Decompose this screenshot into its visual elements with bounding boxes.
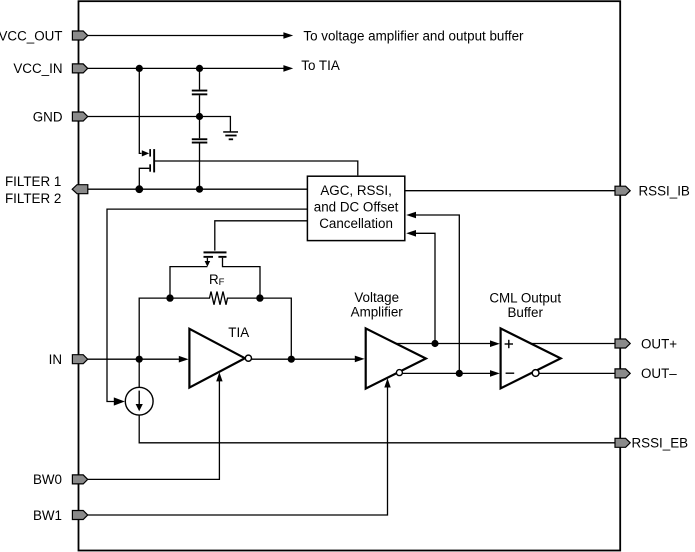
svg-text:To TIA: To TIA: [301, 58, 340, 73]
pin pad OUT+: [615, 339, 630, 348]
svg-text:OUT–: OUT–: [641, 366, 677, 381]
pin pad RSSI_IB: [615, 186, 630, 195]
wire supply decoupling vertical (VCC_IN node down through caps to FILTER): [199, 68, 201, 189]
wire feedback from - line to AGC upper arrow: [406, 212, 459, 374]
svg-text:TIA: TIA: [228, 325, 249, 340]
wire M1 gate feed from VCC_IN node: [139, 68, 149, 156]
svg-text:and DC Offset: and DC Offset: [314, 200, 399, 215]
node FILTER junction at cap chain: [196, 186, 203, 193]
voltage amplifier inverted-output bubble: [396, 370, 402, 376]
wire VA non-inverted output to CML + input: [396, 340, 500, 347]
wire current source to RSSI_EB pin: [139, 415, 615, 443]
pin pad BW1: [72, 511, 87, 520]
wire VCC_OUT to internal supply arrow: [88, 32, 294, 39]
CML inverted-output bubble: [532, 370, 539, 377]
pin pad RSSI_EB: [615, 438, 630, 447]
node feedback tap on + line: [431, 340, 438, 347]
wire M1 drain to AGC block top: [155, 161, 358, 175]
op-amp U3 CML output buffer: [501, 328, 561, 388]
label CML Output Buffer: [489, 290, 561, 320]
ground symbol: [223, 131, 238, 140]
label Voltage Amplifier: [351, 290, 404, 320]
wire FILTER bus to AGC block: [88, 188, 308, 190]
wire M2 right terminal to RF right node: [223, 258, 261, 298]
TIA output inversion bubble: [245, 355, 251, 361]
svg-text:Buffer: Buffer: [507, 305, 543, 320]
svg-text:FILTER 1: FILTER 1: [5, 174, 61, 189]
wire IN to TIA input arrow: [88, 356, 189, 363]
transistor M1 (filter MOSFET): [149, 149, 155, 172]
capacitor C2 (GND to FILTER): [192, 138, 208, 143]
wire RF feedback left leg to TIA input node: [139, 298, 170, 359]
node FILTER junction at M1 source: [135, 185, 143, 193]
svg-text:VCC_IN: VCC_IN: [13, 61, 62, 76]
pin pad OUT-: [615, 369, 630, 378]
svg-text:GND: GND: [33, 109, 63, 124]
wire AGC RSSI output to RSSI_IB pin: [405, 190, 615, 192]
svg-text:OUT+: OUT+: [641, 336, 677, 351]
svg-text:RSSI_EB: RSSI_EB: [632, 436, 689, 451]
node RF right junction: [256, 294, 263, 301]
op-amp U2 voltage amplifier: [366, 328, 426, 388]
AGC block U1: [307, 176, 404, 240]
svg-text:BW0: BW0: [33, 472, 62, 487]
svg-text:CML Output: CML Output: [489, 290, 561, 305]
wire RF feedback right leg to TIA output node: [260, 298, 291, 359]
pin pad VCC_IN: [72, 64, 87, 73]
wire M2 left terminal with arrow to RF left node: [170, 258, 210, 298]
node GND junction: [196, 113, 203, 120]
wire TIA output to voltage amplifier input arrow: [252, 356, 365, 363]
wire feedback from + line to AGC lower arrow: [406, 230, 435, 344]
svg-text:AGC, RSSI,: AGC, RSSI,: [320, 183, 391, 198]
outer chip boundary box: [79, 1, 621, 550]
CML - input marker: [506, 372, 515, 374]
svg-text:RSSI_IB: RSSI_IB: [639, 184, 690, 199]
node VCC_IN junction at M1 gate: [136, 65, 143, 72]
wire GND rail: [88, 117, 231, 132]
svg-text:VCC_OUT: VCC_OUT: [0, 28, 63, 43]
pin pad BW0: [72, 475, 87, 484]
op-amp TIA: [189, 325, 249, 388]
wire CML - output to OUT- pin: [539, 372, 615, 374]
svg-text:FILTER 2: FILTER 2: [5, 191, 61, 206]
svg-text:Voltage: Voltage: [354, 290, 399, 305]
wire AGC DC-offset output to input current source: [107, 209, 307, 406]
node TIA input junction: [136, 356, 143, 363]
svg-text:To voltage amplifier and outpu: To voltage amplifier and output buffer: [303, 28, 524, 43]
capacitor C1 (VCC_IN to GND): [192, 90, 208, 96]
pin pad FILTER (points left): [72, 185, 88, 194]
node TIA output junction: [288, 356, 295, 363]
svg-text:Cancellation: Cancellation: [319, 216, 393, 231]
wire BW1 to voltage amplifier bandwidth-set arrow: [88, 378, 391, 515]
node VCC_IN junction at decoupling cap: [196, 65, 203, 72]
pin pad GND: [72, 112, 87, 121]
CML + input marker: [505, 340, 513, 348]
current source I1 (input offset current): [125, 362, 153, 415]
wire BW0 to TIA bandwidth-set arrow: [88, 372, 223, 479]
wire CML + output to OUT+ pin: [531, 343, 615, 345]
resistor RF feedback: [170, 292, 260, 305]
svg-text:BW1: BW1: [33, 508, 62, 523]
svg-text:IN: IN: [49, 352, 62, 367]
svg-text:Amplifier: Amplifier: [351, 305, 404, 320]
node RF left junction: [166, 294, 173, 301]
wire VCC_IN to TIA supply arrow: [88, 65, 294, 72]
wire AGC output to M2 gate: [215, 221, 308, 251]
node feedback tap on - line: [456, 370, 463, 377]
pin pad VCC_OUT: [72, 31, 87, 40]
transistor M2 (RF shunt MOSFET): [204, 251, 227, 257]
wire VA inverted output to CML - input: [403, 370, 500, 377]
wire M1 source to FILTER node: [139, 168, 149, 189]
pin pad IN: [72, 355, 87, 364]
